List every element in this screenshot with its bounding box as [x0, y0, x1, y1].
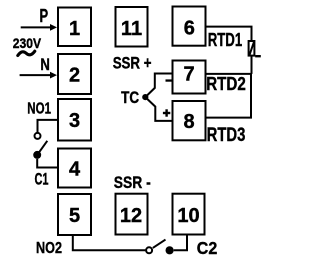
svg-text:230V: 230V — [13, 35, 42, 51]
svg-text:C2: C2 — [197, 238, 218, 258]
svg-text:11: 11 — [121, 18, 142, 40]
svg-text:12: 12 — [120, 205, 142, 227]
svg-text:10: 10 — [177, 205, 199, 227]
svg-text:RTD2: RTD2 — [206, 73, 246, 94]
svg-text:N: N — [40, 55, 50, 74]
svg-text:1: 1 — [69, 18, 80, 40]
svg-text:SSR -: SSR - — [114, 173, 151, 192]
svg-text:3: 3 — [69, 110, 80, 132]
svg-text:7: 7 — [183, 63, 194, 85]
svg-text:P: P — [40, 6, 49, 26]
svg-text:C1: C1 — [35, 171, 49, 189]
svg-text:SSR +: SSR + — [113, 53, 152, 72]
svg-text:4: 4 — [69, 158, 81, 180]
svg-text:RTD1: RTD1 — [208, 30, 243, 50]
svg-text:5: 5 — [69, 205, 80, 227]
svg-text:NO2: NO2 — [36, 240, 62, 257]
svg-text:8: 8 — [183, 111, 194, 133]
svg-text:2: 2 — [69, 64, 80, 86]
svg-text:NO1: NO1 — [27, 101, 51, 118]
svg-text:6: 6 — [184, 18, 195, 40]
svg-text:RTD3: RTD3 — [207, 124, 246, 146]
svg-text:TC: TC — [121, 89, 139, 107]
